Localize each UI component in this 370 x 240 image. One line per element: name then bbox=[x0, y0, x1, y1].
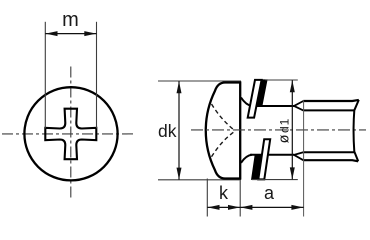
spring washer bottom black section bbox=[252, 155, 262, 180]
pan head side profile bbox=[206, 83, 240, 179]
shank top surface line bbox=[250, 105, 294, 107]
dimension od1 line bbox=[291, 80, 293, 179]
shank bottom surface line bbox=[250, 154, 294, 156]
dimension a line bbox=[240, 206, 303, 208]
thread root line top bbox=[303, 109, 354, 111]
extension line m left bbox=[44, 22, 46, 129]
dk extension line top bbox=[158, 80, 241, 82]
dimension m right arrowhead bbox=[84, 31, 96, 36]
front view horizontal centerline bbox=[2, 133, 135, 135]
dimension k line bbox=[207, 206, 240, 208]
dk extension line bottom bbox=[158, 179, 241, 181]
extension line m right bbox=[96, 22, 98, 129]
spring washer top white section bbox=[248, 80, 262, 118]
a left arrowhead bbox=[240, 205, 252, 210]
side view axis centerline bbox=[191, 129, 366, 131]
od1 extension line top bbox=[265, 79, 298, 81]
neck fillet bottom bbox=[241, 155, 252, 163]
thread run-up point top bbox=[294, 101, 303, 110]
dimension m left arrowhead bbox=[46, 31, 58, 36]
front view vertical centerline bbox=[70, 67, 72, 201]
head front view circle bbox=[24, 87, 117, 180]
od1 top arrowhead bbox=[290, 80, 295, 92]
svg-text:dk: dk bbox=[158, 121, 177, 141]
spring washer top black section bbox=[257, 80, 268, 106]
svg-text:k: k bbox=[219, 183, 229, 203]
svg-text:a: a bbox=[264, 183, 275, 203]
k right arrowhead bbox=[228, 205, 240, 210]
k extension line left bbox=[206, 179, 208, 217]
svg-text:m: m bbox=[62, 9, 79, 31]
k left arrowhead bbox=[208, 205, 220, 210]
dimension m arrow line bbox=[45, 33, 96, 35]
dk bottom arrowhead bbox=[177, 168, 182, 180]
od1 extension line bottom bbox=[252, 179, 298, 181]
dk top arrowhead bbox=[177, 81, 182, 93]
phillips recess cross outline bbox=[45, 109, 96, 160]
hidden recess dashed arc upper bbox=[212, 104, 236, 131]
spring washer bottom white section bbox=[258, 139, 270, 179]
k extension line right / head face extended bbox=[239, 181, 241, 217]
thread end break line bbox=[354, 100, 359, 161]
a right arrowhead bbox=[291, 205, 303, 210]
thread root line bottom bbox=[303, 151, 354, 153]
thread crest line top bbox=[303, 100, 359, 101]
svg-text:ød1: ød1 bbox=[277, 118, 293, 144]
neck fillet top bbox=[241, 98, 252, 107]
hidden recess dashed arc lower bbox=[212, 131, 236, 157]
thread crest line bottom bbox=[303, 160, 358, 161]
od1 bottom arrowhead bbox=[290, 167, 295, 179]
dimension dk line bbox=[178, 81, 180, 179]
a extension vertical line through thread bbox=[303, 101, 305, 217]
thread run-up point bottom bbox=[294, 152, 303, 160]
